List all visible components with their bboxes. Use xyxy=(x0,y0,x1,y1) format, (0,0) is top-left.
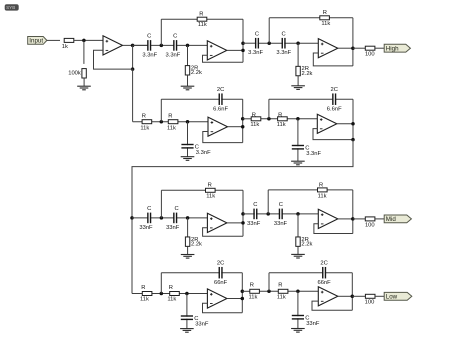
wire input to R 1k xyxy=(47,39,60,41)
ground U9 xyxy=(291,329,305,333)
op-amp U2 xyxy=(207,41,227,60)
wire U6 feedback loop xyxy=(203,228,243,237)
node U6 op-amp input xyxy=(186,216,190,220)
wire band feed from LP2 output xyxy=(132,140,353,294)
node U9 between resistors xyxy=(267,290,271,294)
wire U3 output vertical xyxy=(352,18,354,66)
ground U8 xyxy=(180,329,194,333)
wire U2 to 2R xyxy=(187,45,189,65)
node U5 op-amp input xyxy=(296,117,300,121)
svg-text:11k: 11k xyxy=(140,126,149,132)
wire U5 output xyxy=(337,123,353,125)
svg-text:100: 100 xyxy=(365,299,375,305)
junction LP3 out to LP4 xyxy=(241,290,245,294)
svg-text:R: R xyxy=(278,112,282,118)
svg-text:C: C xyxy=(253,202,257,208)
wire U2 output xyxy=(227,49,243,51)
wire U6 signal line xyxy=(132,217,207,219)
wire U4 to feedback C xyxy=(160,99,162,122)
resistor RU4a 11k xyxy=(140,113,151,131)
wire U6 feedback top xyxy=(161,189,243,191)
node U3 between caps xyxy=(267,41,271,45)
wire buffer output down xyxy=(132,45,134,69)
svg-text:R: R xyxy=(252,112,256,118)
wire U3 to feedback R xyxy=(268,18,270,43)
junction U2 output xyxy=(241,49,245,53)
capacitor 2CU9 66nF xyxy=(317,260,331,286)
wire U5 feedback loop xyxy=(313,129,353,140)
wire U9 feedback top xyxy=(269,272,352,274)
resistor RU5a 11k xyxy=(250,112,260,128)
wire node to 100k xyxy=(83,40,85,64)
capacitor CU2b 3.3nF xyxy=(165,34,180,59)
svg-text:C: C xyxy=(147,206,151,212)
svg-text:66nF: 66nF xyxy=(317,280,331,286)
resistor 2RU6 2.2k xyxy=(185,237,202,248)
wire U7 to 2R xyxy=(297,214,299,237)
junction U6 output xyxy=(241,221,245,225)
capacitor CU3a 3.3nF xyxy=(248,31,263,56)
wire 100 to Mid tag xyxy=(375,218,384,220)
resistor RU7 11k feedback xyxy=(318,182,328,199)
svg-text:C: C xyxy=(173,34,177,40)
svg-text:66nF: 66nF xyxy=(214,280,228,286)
junction U4 output xyxy=(241,125,245,129)
ground U3 xyxy=(291,86,305,90)
resistor R 1k input xyxy=(62,38,74,50)
wire U2 signal line xyxy=(133,44,208,46)
svg-text:2.2k: 2.2k xyxy=(302,71,313,77)
resistor RU5b 11k xyxy=(277,112,287,128)
resistor RU2 11k feedback xyxy=(197,11,207,28)
wire U2 feedback loop xyxy=(203,55,244,62)
wire U3 to 2R xyxy=(297,43,299,66)
wire U4 feedback top xyxy=(161,98,242,100)
wire U7 output xyxy=(338,218,353,220)
svg-text:33nF: 33nF xyxy=(166,225,180,231)
junction U3 output xyxy=(351,46,355,50)
svg-text:Low: Low xyxy=(386,294,398,301)
wire U6 output xyxy=(227,222,243,224)
op-amp U5 xyxy=(317,114,337,133)
svg-text:Mid: Mid xyxy=(386,216,397,223)
wire U8 to feedback C xyxy=(160,273,162,294)
svg-text:11k: 11k xyxy=(250,122,259,128)
wire U2 to feedback R xyxy=(160,19,162,45)
wire U9 feedback loop xyxy=(312,301,352,310)
svg-text:11k: 11k xyxy=(321,21,330,27)
svg-text:2.2k: 2.2k xyxy=(191,242,202,248)
capacitor C U4 3.3nF shunt xyxy=(181,144,211,156)
junction LP1 out to LP2 xyxy=(241,117,245,121)
output terminal Mid xyxy=(384,215,411,223)
svg-text:R: R xyxy=(250,283,254,289)
svg-text:3.3nF: 3.3nF xyxy=(196,150,211,156)
wire U5 to feedback C xyxy=(268,99,270,119)
capacitor CU6a 33nF xyxy=(139,206,153,231)
wire U6 to feedback R xyxy=(160,190,162,218)
wire U9 to feedback C xyxy=(268,273,270,292)
node U8 op-amp input xyxy=(185,292,189,296)
wire U5 output vertical xyxy=(352,99,354,139)
svg-text:6.6nF: 6.6nF xyxy=(213,107,228,113)
wire U2 feedback top xyxy=(161,18,243,20)
svg-text:2.2k: 2.2k xyxy=(301,242,312,248)
wire U7 2R to ground xyxy=(297,246,299,254)
wire U8 feedback top xyxy=(161,272,242,274)
wire U3 feedback top xyxy=(269,17,353,19)
wire HP2 output to 100 xyxy=(353,47,365,49)
svg-text:3.3nF: 3.3nF xyxy=(142,52,157,58)
node U4 between resistors xyxy=(160,120,164,124)
svg-text:33nF: 33nF xyxy=(139,225,153,231)
svg-text:High: High xyxy=(386,46,399,53)
svg-text:3.3nF: 3.3nF xyxy=(306,151,321,157)
wire 100k to ground xyxy=(83,78,85,86)
svg-text:11k: 11k xyxy=(277,122,286,128)
wire U4 signal line xyxy=(133,121,208,123)
svg-text:1k: 1k xyxy=(62,44,68,50)
op-amp U8 xyxy=(207,289,227,308)
wire 100 to High tag xyxy=(375,47,384,49)
resistor RU3 11k feedback xyxy=(320,10,331,27)
resistor R 100 Mid xyxy=(365,217,375,229)
resistor 2RU2 2.2k xyxy=(185,65,202,76)
logo badge top-left xyxy=(5,4,19,10)
wire HP1 to HP2 xyxy=(243,42,255,44)
node U8 between resistors xyxy=(160,292,164,296)
svg-text:3.3nF: 3.3nF xyxy=(248,50,263,56)
svg-text:R: R xyxy=(169,285,173,291)
svg-text:R: R xyxy=(208,183,212,189)
node U9 op-amp input xyxy=(296,290,300,294)
svg-text:6.6nF: 6.6nF xyxy=(327,107,342,113)
junction LP2 loop/feed xyxy=(351,138,355,142)
wire U8 shunt C to ground xyxy=(186,294,188,329)
resistor RU4b 11k xyxy=(167,113,178,131)
svg-text:2C: 2C xyxy=(217,87,224,93)
resistor RU8b 11k xyxy=(167,285,179,303)
junction feedback/branch xyxy=(131,67,135,71)
capacitor CU3b 3.3nF xyxy=(276,31,291,56)
wire U5 signal line xyxy=(251,118,317,120)
capacitor 2CU5 6.6nF xyxy=(327,87,342,113)
node U6 between caps xyxy=(160,216,164,220)
node U7 between caps xyxy=(266,212,270,216)
op-amp U1 buffer xyxy=(103,36,123,55)
wire U5 feedback top xyxy=(269,98,353,100)
wire LP3 to LP4 xyxy=(242,290,250,292)
wire U2 2R to ground xyxy=(187,75,189,86)
svg-text:C: C xyxy=(255,31,259,37)
junction U7 output xyxy=(351,217,355,221)
output terminal High xyxy=(384,44,410,52)
svg-text:11k: 11k xyxy=(318,193,327,199)
node U2 op-amp input xyxy=(186,44,190,48)
node U4 op-amp input xyxy=(186,120,190,124)
op-amp U4 xyxy=(208,117,228,136)
junction U8 output xyxy=(241,297,245,301)
wire U7 signal line xyxy=(253,213,318,215)
capacitor 2CU8 66nF xyxy=(214,260,228,286)
svg-text:2C: 2C xyxy=(320,260,327,266)
wire U9 output xyxy=(338,295,353,297)
wire HP4 output to 100 xyxy=(353,218,365,220)
svg-text:C: C xyxy=(175,206,179,212)
wire LP4 output to 100 xyxy=(352,295,365,297)
resistor R 100k xyxy=(68,69,86,78)
svg-text:11k: 11k xyxy=(206,194,215,200)
svg-text:11k: 11k xyxy=(198,22,207,28)
wire U3 2R to ground xyxy=(297,76,299,86)
wire U8 output vertical xyxy=(241,273,243,313)
capacitor CU7a 33nF xyxy=(247,202,261,227)
wire R 1k to buffer + xyxy=(74,39,103,41)
wire U6 to 2R xyxy=(187,218,189,237)
junction HP3 out to HP4 xyxy=(241,212,245,216)
op-amp U7 xyxy=(318,209,338,228)
svg-text:11k: 11k xyxy=(167,297,176,303)
wire U8 feedback loop xyxy=(203,303,243,312)
svg-text:33nF: 33nF xyxy=(247,221,261,227)
input terminal Input xyxy=(28,37,47,45)
junction HP1 out to HP2 xyxy=(241,41,245,45)
capacitor CU6b 33nF xyxy=(166,206,180,231)
node U5 between resistors xyxy=(267,117,271,121)
junction feed to mid band xyxy=(130,216,134,220)
ground U5 xyxy=(291,161,305,165)
svg-text:2.2k: 2.2k xyxy=(191,70,202,76)
svg-text:33nF: 33nF xyxy=(274,221,288,227)
svg-text:C: C xyxy=(282,31,286,37)
wire 100 to Low tag xyxy=(375,295,384,297)
svg-text:R: R xyxy=(168,113,172,119)
capacitor 2CU4 6.6nF xyxy=(213,87,228,113)
junction input node xyxy=(82,39,86,43)
wire U9 signal line xyxy=(250,290,318,292)
wire LP1 to LP2 xyxy=(243,118,252,120)
svg-text:11k: 11k xyxy=(140,297,149,303)
svg-text:R: R xyxy=(319,182,323,188)
capacitor CU7b 33nF xyxy=(274,202,288,227)
wire U4 output vertical xyxy=(242,99,244,142)
wire U4 feedback loop xyxy=(203,132,243,143)
wire U3 output xyxy=(338,47,353,49)
junction U9 output xyxy=(351,295,355,299)
svg-text:Input: Input xyxy=(29,38,43,45)
svg-text:33nF: 33nF xyxy=(195,321,209,327)
resistor R 100 High xyxy=(365,46,375,57)
wire U5 shunt C to ground xyxy=(297,119,299,161)
svg-text:C: C xyxy=(279,202,283,208)
resistor RU8a 11k xyxy=(140,285,152,303)
wire U8 signal line xyxy=(132,293,207,295)
junction U5 output xyxy=(351,122,355,126)
wire U9 output vertical xyxy=(351,273,353,311)
svg-text:R: R xyxy=(142,113,146,119)
svg-text:R: R xyxy=(199,11,203,17)
wire U7 to feedback R xyxy=(267,190,269,214)
resistor 2RU7 2.2k xyxy=(296,237,313,248)
ground U2 xyxy=(181,86,195,90)
wire buffer feedback to - input xyxy=(94,50,133,69)
svg-text:C: C xyxy=(147,34,151,40)
svg-text:33nF: 33nF xyxy=(306,321,320,327)
output terminal Low xyxy=(384,292,412,300)
node U2 between caps xyxy=(160,44,164,48)
svg-text:100: 100 xyxy=(365,223,375,229)
wire U3 signal line xyxy=(255,42,318,44)
svg-text:3.3nF: 3.3nF xyxy=(276,50,291,56)
wire U6 output vertical xyxy=(242,190,244,236)
resistor 2RU3 2.2k xyxy=(296,66,313,77)
ground U4 xyxy=(181,157,195,161)
wire U7 feedback loop xyxy=(314,224,353,234)
op-amp U3 xyxy=(318,39,338,58)
op-amp U6 xyxy=(207,213,227,232)
svg-text:SYB: SYB xyxy=(6,5,15,10)
resistor RU9b 11k xyxy=(277,283,288,301)
wire buffer output xyxy=(123,44,148,46)
ground U6 xyxy=(181,255,195,259)
svg-text:11k: 11k xyxy=(248,294,257,300)
op-amp U9 xyxy=(318,287,338,306)
wire HP3 to HP4 xyxy=(243,213,253,215)
wire U3 feedback loop xyxy=(313,53,353,66)
wire U6 2R to ground xyxy=(187,246,189,254)
node U3 op-amp input xyxy=(296,41,300,45)
wire U4 shunt C to ground xyxy=(187,122,189,157)
capacitor C U8 33nF shunt xyxy=(181,315,209,327)
svg-text:R: R xyxy=(278,283,282,289)
resistor RU6 11k feedback xyxy=(206,183,216,200)
capacitor C U9 33nF shunt xyxy=(292,315,320,327)
svg-text:100: 100 xyxy=(365,52,375,58)
capacitor C U5 3.3nF shunt xyxy=(292,145,322,157)
svg-text:3.3nF: 3.3nF xyxy=(165,52,180,58)
svg-text:100k: 100k xyxy=(68,70,81,76)
wire buffer output to low-pass row xyxy=(132,69,134,122)
svg-text:2C: 2C xyxy=(330,87,337,93)
svg-text:R: R xyxy=(141,285,145,291)
wire U8 output xyxy=(227,298,242,300)
svg-text:R: R xyxy=(323,10,327,16)
wire U2 output vertical xyxy=(242,19,244,62)
svg-text:11k: 11k xyxy=(167,126,176,132)
svg-text:2C: 2C xyxy=(217,260,224,266)
node U7 op-amp input xyxy=(296,212,300,216)
resistor R 100 Low xyxy=(365,294,375,305)
wire U4 output xyxy=(228,126,243,128)
capacitor CU2a 3.3nF xyxy=(142,34,157,59)
wire U7 output vertical xyxy=(352,190,354,234)
wire U7 feedback top xyxy=(268,189,353,191)
resistor RU9a 11k xyxy=(248,283,259,301)
svg-text:11k: 11k xyxy=(277,294,286,300)
ground U7 xyxy=(291,254,305,258)
wire U9 shunt C to ground xyxy=(297,291,299,328)
ground at 100k xyxy=(77,86,91,90)
junction buffer output xyxy=(131,44,135,48)
